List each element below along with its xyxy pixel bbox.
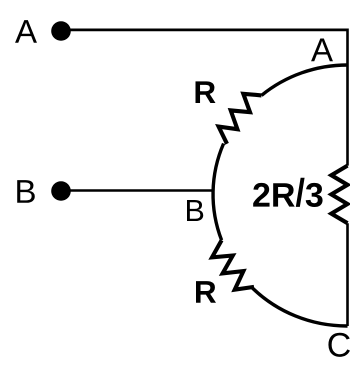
wire arc from resistor R1 through node B to resistor R2 <box>213 144 224 241</box>
wire from terminal B to node B <box>61 189 214 192</box>
wire arc from resistor R2 to node C <box>251 287 347 326</box>
resistor U3 (2R/3) zigzag <box>331 166 347 224</box>
wire from terminal A to top-right corner <box>61 28 348 31</box>
terminal B label <box>17 180 35 203</box>
wire arc from node A to resistor R1 top <box>262 65 348 95</box>
terminal A label <box>15 20 37 43</box>
terminal B dot <box>51 181 71 201</box>
resistor R2 value label R <box>196 281 216 303</box>
node B label <box>187 200 203 221</box>
resistor R2 (lower R) zigzag <box>212 240 254 290</box>
wire right vertical from resistor 2R/3 bottom to node C <box>346 223 349 326</box>
node A label <box>311 38 333 61</box>
resistor U3 value label 2R/3 <box>253 178 322 207</box>
resistor R1 value label R <box>196 81 216 103</box>
resistor R1 (upper R) zigzag <box>219 94 262 144</box>
wire right vertical (corner through node A to resistor 2R/3 top) <box>346 29 349 166</box>
node C label <box>328 333 350 357</box>
terminal A dot <box>51 21 71 41</box>
